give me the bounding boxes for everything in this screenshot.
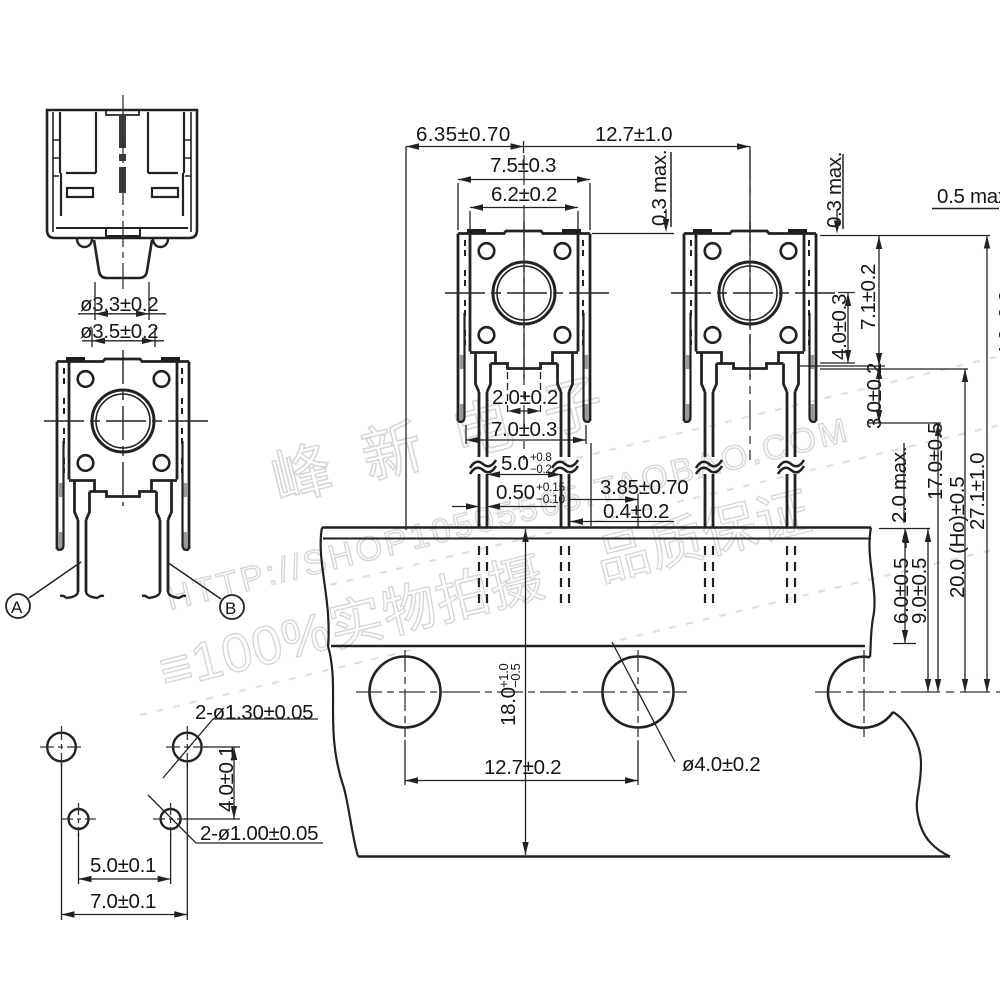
svg-text:−0.5: −0.5 (508, 663, 523, 688)
switch2 hidden legs below tape (705, 546, 795, 604)
svg-text:ø4.0±0.2: ø4.0±0.2 (682, 753, 760, 776)
svg-text:18.0: 18.0 (497, 687, 520, 726)
bottom view right slot (152, 188, 178, 197)
dimension 2.0 (492, 372, 558, 416)
svg-text:+0.8: +0.8 (530, 452, 552, 464)
footprint hole small left (61, 803, 96, 836)
dimension 3.0 (863, 363, 941, 429)
switch2 leg break squiggles (696, 460, 804, 474)
switch1 legs to tape (479, 392, 569, 527)
footprint hole large right (166, 726, 209, 768)
dimension 7.5 (458, 154, 590, 230)
svg-text:7.5±0.3: 7.5±0.3 (490, 154, 556, 177)
dimension 0.4 (570, 443, 674, 526)
svg-text:5.0: 5.0 (501, 452, 529, 475)
svg-text:0.50: 0.50 (496, 481, 535, 504)
svg-text:2.0±0.2: 2.0±0.2 (492, 386, 558, 409)
switch1 leg break squiggles (470, 460, 578, 474)
svg-text:3.0±0.2: 3.0±0.2 (863, 363, 886, 429)
footprint dimension 4.0 (184, 746, 240, 819)
bottom view inner wall right (190, 112, 192, 232)
footprint hole large left (40, 726, 83, 768)
switch corner circle TR (555, 243, 571, 259)
dimension phi4.0 leader (612, 642, 760, 776)
svg-text:0.3 max.: 0.3 max. (648, 150, 671, 226)
sprocket hole 1 (370, 657, 441, 728)
switch button inner circle (497, 266, 551, 320)
switch corner circle TL (479, 243, 495, 259)
dimension 0.5max (932, 185, 1000, 209)
left view legs (78, 520, 168, 592)
bottom view wall ticks right (185, 140, 191, 176)
bottom view stem (94, 240, 152, 278)
switch corner circle BR (555, 327, 571, 343)
switch2 crosshair extension right (838, 292, 855, 294)
tape torn left edge (321, 528, 358, 857)
sprocket hole 2 (603, 657, 674, 728)
tape band boundary (331, 645, 865, 647)
svg-text:12.7±1.0: 12.7±1.0 (595, 123, 672, 146)
svg-text:B: B (225, 599, 236, 618)
footprint hole small right (153, 803, 188, 836)
left view leg feet (60, 592, 186, 598)
switch1 hidden legs below tape (479, 546, 569, 604)
dimension 0.3max switch2 (820, 152, 990, 236)
switch1 centerline (523, 155, 525, 460)
tape torn right edge upper (869, 528, 874, 658)
sprocket hole 1 centerlines (356, 650, 589, 737)
bottom view inner wall left (52, 112, 54, 232)
dimension 27.1 (966, 236, 990, 693)
switch2 = symbol shifted +226 (671, 222, 838, 422)
switch hidden side dashes (465, 240, 583, 345)
footprint dimension 7.0 (62, 763, 188, 920)
dimension 9.0 (908, 529, 931, 692)
tape top edge lines (322, 528, 871, 539)
footprint label 1.00 (148, 795, 323, 845)
label A circle (6, 562, 81, 618)
dimension 7.0 (466, 418, 586, 444)
bottom view inner bottom edge (56, 227, 188, 229)
bottom view right block (148, 112, 184, 216)
hole centerline extension right (910, 691, 1000, 693)
bottom view centerline (122, 95, 124, 292)
sprocket hole 3 partial (828, 657, 893, 728)
sprocket hole 3 centerlines (815, 650, 910, 737)
switch corner circle BL (479, 327, 495, 343)
bottom view outer case (47, 110, 197, 238)
switch body outline (458, 231, 590, 421)
svg-text:4.0±0.2: 4.0±0.2 (995, 291, 1000, 357)
dimension 0.50 (452, 480, 565, 510)
dimension 2.0max (888, 443, 911, 548)
svg-text:2-ø1.00±0.05: 2-ø1.00±0.05 (200, 822, 318, 845)
svg-text:7.0±0.1: 7.0±0.1 (90, 890, 156, 913)
bottom view bottom center tab (106, 228, 140, 236)
svg-text:A: A (11, 598, 23, 617)
dimension 7.1 (800, 236, 885, 366)
svg-text:12.7±0.2: 12.7±0.2 (484, 756, 561, 779)
dimension 12.7 top (595, 123, 750, 233)
watermark url text (163, 412, 851, 618)
dimension phi3.3 (78, 282, 166, 320)
svg-text:7.1±0.2: 7.1±0.2 (857, 264, 880, 330)
tape bottom edge (358, 855, 950, 857)
svg-text:2.0 max.: 2.0 max. (888, 447, 911, 523)
watermark dashed lines (140, 356, 1000, 715)
dimension 17.0 (924, 423, 947, 692)
bottom view left block (60, 112, 96, 216)
svg-text:0.5 max.: 0.5 max. (937, 185, 1000, 208)
switch flange strips (458, 313, 590, 422)
svg-text:2-ø1.30±0.05: 2-ø1.30±0.05 (195, 701, 313, 724)
dimension 18.0 (496, 529, 529, 855)
dimension 3.85 (570, 476, 689, 527)
dimension 6.2 (470, 183, 578, 230)
dimension 6.35 (406, 123, 750, 530)
footprint label 1.30 (163, 701, 318, 778)
switch top black tabs (467, 229, 581, 234)
switch crosshair horizontal (445, 292, 612, 294)
svg-text:6.35±0.70: 6.35±0.70 (416, 123, 511, 146)
svg-text:5.0±0.1: 5.0±0.1 (90, 854, 156, 877)
dimension 4.0 side (820, 293, 855, 363)
bottom view center shaft (118, 114, 127, 193)
svg-text:−0.10: −0.10 (536, 492, 565, 506)
dimension 5.0 (487, 452, 561, 478)
label B circle (167, 562, 244, 619)
sprocket hole 2 centerlines (589, 650, 687, 737)
switch button outer circle (493, 262, 555, 324)
bottom view left slot (67, 188, 93, 197)
switch2 centerline (749, 150, 751, 460)
tape torn right edge lower (893, 712, 950, 857)
switch bottom outline with legs shoulders (470, 353, 578, 393)
svg-text:3.85±0.70: 3.85±0.70 (600, 476, 688, 499)
dimension 6.0 (879, 529, 930, 644)
svg-text:7.0±0.3: 7.0±0.3 (491, 418, 557, 441)
watermark big chinese text (265, 359, 642, 514)
bottom view wall ticks left (53, 140, 59, 176)
bottom view bump arcs (77, 239, 168, 247)
dimension 0.3max switch1 (592, 150, 674, 234)
switch2 legs to tape (705, 392, 795, 527)
watermark 100% text (153, 481, 817, 701)
switch crosshair vertical (523, 222, 525, 378)
footprint dimension 5.0 (79, 833, 171, 884)
svg-text:ø3.3±0.2: ø3.3±0.2 (80, 293, 158, 316)
svg-text:0.4±0.2: 0.4±0.2 (603, 500, 669, 523)
dimension phi3.5 (80, 320, 164, 347)
dimension 20.0 (820, 369, 969, 692)
svg-text:27.1±1.0: 27.1±1.0 (966, 453, 989, 530)
dimension 12.7 tape (405, 740, 638, 785)
switch flange gray fills (459, 355, 589, 422)
bottom view top notches (106, 110, 139, 115)
